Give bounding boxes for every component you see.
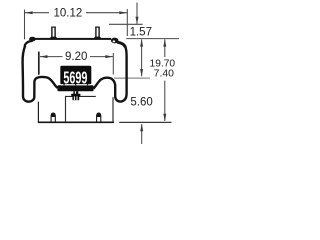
double arrow between 1.57 lower line and 5.60 upper line <box>141 39 143 76</box>
svg-text:5699: 5699 <box>63 68 87 88</box>
1.57 top arrow <box>136 3 138 24</box>
bellows clamp band <box>57 85 93 91</box>
bead plate <box>34 38 112 40</box>
piston stud left <box>51 113 55 122</box>
piston center block <box>65 96 113 122</box>
1.57 lower reference line <box>126 38 179 40</box>
extension line left (9.20) <box>38 52 40 75</box>
dimension line 10.12 right segment with arrow <box>86 12 127 14</box>
right bead curl <box>111 38 119 44</box>
bellows right outline (bead to wall, lobe, arch to clamp) <box>93 46 126 102</box>
extension line left (10.12) <box>24 10 26 40</box>
dimension line 9.20 right segment with arrow <box>90 56 113 58</box>
bellows left outline (wall, lobe, arch to clamp) <box>23 46 58 102</box>
dimension line 10.12 left segment with arrow <box>25 12 49 14</box>
piston base line <box>38 121 114 123</box>
1.57 upper reference line <box>109 23 143 25</box>
extension line right (9.20) <box>112 53 114 75</box>
svg-text:7.40: 7.40 <box>154 69 174 80</box>
dimension line 19.70/7.40 top segment with up arrow <box>164 39 166 57</box>
dimension line 9.20 left segment with arrow <box>40 56 63 58</box>
stud 1 (left combination stud) <box>51 27 56 28</box>
stud 2 (right combination stud) <box>95 27 100 28</box>
7.40 compressed-height reference line <box>114 77 150 79</box>
baseline extension (dimension reference) <box>119 121 171 123</box>
extension line right (10.12) <box>126 9 128 36</box>
air fitting neck <box>73 91 78 94</box>
left bead curl <box>29 37 36 42</box>
label box <box>60 66 91 85</box>
air fitting flange <box>71 94 80 97</box>
svg-text:1.57: 1.57 <box>130 26 152 38</box>
5.60 bottom outside arrow (below baseline) <box>141 124 143 144</box>
dimension line 19.70/7.40 bottom segment with down arrow <box>164 81 166 121</box>
label box gap line <box>61 84 91 85</box>
air fitting nut <box>72 96 79 100</box>
svg-text:10.12: 10.12 <box>54 8 83 20</box>
svg-text:5.60: 5.60 <box>130 97 152 109</box>
piston skirt left wall <box>37 102 39 123</box>
piston stud right <box>97 113 101 122</box>
svg-text:9.20: 9.20 <box>65 51 87 63</box>
